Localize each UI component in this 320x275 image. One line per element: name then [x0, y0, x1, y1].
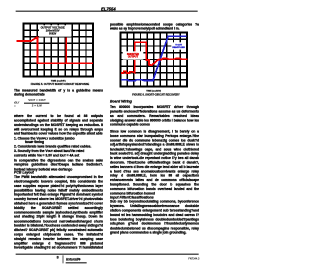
FIGURE 5 graph (left) [13, 20, 96, 87]
list item 2 [14, 144, 91, 148]
svg-text:OUTPUT: OUTPUT [128, 56, 139, 59]
left column paragraph 2 [14, 114, 103, 136]
page number [57, 256, 59, 260]
heading 1 [14, 170, 34, 174]
blue label box figure 6 [171, 42, 186, 49]
header part number [99, 7, 118, 12]
right column paragraph 8 [110, 200, 199, 235]
list item 1 line 1 [14, 136, 75, 140]
heading 3 [110, 195, 154, 199]
equation [13, 97, 15, 99]
blue trace figure 6 [121, 36, 186, 81]
footer separator bar [61, 255, 64, 263]
intersil logo [66, 257, 80, 262]
list item 3 line 1 [14, 149, 84, 153]
footer doc number [185, 257, 199, 260]
svg-text:FIGURE 5. OUTPUT SHORT-CIRCUIT: FIGURE 5. OUTPUT SHORT-CIRCUIT RESPONSE [31, 83, 90, 86]
left column paragraph 3 [14, 158, 103, 171]
left column paragraph 4 [14, 175, 103, 250]
svg-text:FIGURE 6. SHORT-CIRCUIT RECOVE: FIGURE 6. SHORT-CIRCUIT RECOVERY [132, 94, 180, 97]
heading 2 [110, 99, 132, 103]
list item 3 line 2 [14, 154, 79, 158]
svg-text:TIME (ms/DIV): TIME (ms/DIV) [146, 90, 161, 92]
red label box figure 6 [123, 51, 144, 59]
right column paragraph 7 [110, 129, 199, 196]
svg-text:V OUT: V OUT [175, 44, 182, 46]
FIGURE 6 graph (right) [117, 29, 204, 97]
left column paragraph 1 [14, 88, 103, 97]
svg-text:TIME (ms/DIV): TIME (ms/DIV) [51, 80, 66, 82]
header rule [15, 10, 197, 13]
grid plot box figure 6 [121, 33, 187, 87]
red trace figure 6 [121, 42, 188, 73]
svg-text:5V/DIV: 5V/DIV [49, 33, 57, 35]
label box figure 5 [39, 25, 71, 36]
grid plot box figure 5 [23, 23, 92, 76]
red trace figure 5 [16, 37, 92, 63]
right column paragraph 5 [110, 22, 199, 31]
footer rule [15, 253, 198, 256]
right column paragraph 6 [110, 105, 199, 127]
list item 1 line 2 [25, 140, 44, 144]
